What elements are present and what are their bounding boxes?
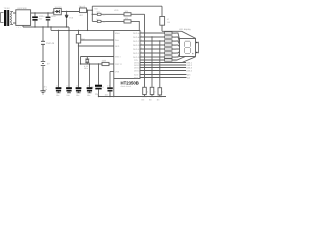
svg-text:VSS: VSS — [115, 70, 120, 73]
bridge rectifier BR1 — [16, 10, 31, 26]
svg-text:SEG.E: SEG.E — [133, 48, 140, 51]
capacitor C2 — [46, 12, 51, 27]
svg-text:+5V: +5V — [94, 8, 98, 11]
svg-text:SEG.A: SEG.A — [133, 32, 140, 35]
svg-text:OSC O: OSC O — [115, 63, 122, 66]
wire R3 to digit line — [131, 13, 145, 15]
wire riser to C3 x58.5 — [58, 30, 59, 31]
switch row A wire y14.3 — [92, 13, 124, 15]
svg-text:10M: 10M — [102, 59, 107, 62]
capacitor C1 — [32, 12, 38, 27]
anode arrow bottom — [197, 52, 199, 54]
svg-text:ALM: ALM — [134, 73, 139, 76]
svg-text:+5V: +5V — [79, 14, 84, 17]
osc loop left vertical — [80, 57, 82, 65]
node osc left — [80, 63, 81, 64]
switch S2 — [97, 20, 101, 22]
top rail +V y13 — [31, 12, 53, 14]
svg-text:10n: 10n — [76, 94, 79, 97]
diode D1 box — [53, 9, 80, 15]
svg-text:alm: alm — [187, 73, 191, 76]
svg-text:10n: 10n — [66, 94, 69, 97]
capacitor C4 x69 — [66, 84, 72, 96]
wire R4 to IC top — [131, 21, 139, 30]
node row A junction — [92, 14, 93, 15]
svg-text:SEG.G: SEG.G — [133, 56, 140, 59]
segment pin numbers — [141, 30, 142, 57]
svg-text:DIG.4: DIG.4 — [187, 69, 193, 72]
capacitor C6 x89.5 — [87, 84, 93, 96]
resistor R4 (row B) — [124, 20, 131, 23]
wire VDD y30.4 left section — [51, 27, 114, 30]
display DS1 — [180, 39, 196, 57]
svg-text:clock circuit: clock circuit — [121, 85, 132, 88]
alarm rows — [140, 74, 187, 76]
svg-text:DIG.3: DIG.3 — [134, 66, 140, 69]
svg-text:RES: RES — [115, 45, 120, 48]
svg-text:VDD: VDD — [114, 9, 119, 12]
crystal X1 — [85, 57, 89, 65]
VDD drop from regulator — [87, 10, 89, 30]
svg-text:c: c — [162, 91, 163, 94]
switch S1 — [97, 13, 101, 15]
driver transistor Q3 — [157, 88, 163, 102]
IC ground vertical — [113, 79, 115, 97]
svg-text:10n: 10n — [105, 93, 108, 96]
value text block left of caps — [43, 86, 48, 94]
svg-text:SEG.B: SEG.B — [133, 36, 140, 39]
digit driver vertical x152 — [151, 36, 152, 37]
svg-text:SNZ: SNZ — [134, 76, 139, 79]
wire box to +V node — [87, 9, 93, 11]
resistor R6 vertical — [78, 30, 79, 31]
anode arrow top — [197, 42, 199, 44]
diode D3 on battery branch — [41, 41, 45, 44]
wire riser to C6 from osc wire — [89, 64, 91, 87]
regulator U2 small box — [80, 8, 87, 13]
svg-text:10n: 10n — [56, 94, 59, 97]
svg-text:LED display: LED display — [179, 28, 192, 31]
driver transistor Q2 — [149, 87, 156, 101]
svg-text:3V: 3V — [47, 63, 50, 66]
AC plug input stubs — [1, 13, 4, 23]
segment wires + resistors R10-R16 — [140, 33, 180, 57]
svg-text:78L05: 78L05 — [79, 6, 86, 9]
node battery branch — [42, 26, 43, 27]
svg-text:SEG.C: SEG.C — [133, 40, 140, 43]
top rail wire y3.8 — [92, 5, 162, 7]
svg-text:hrs: hrs — [97, 18, 100, 21]
wire riser continues down to C5 — [78, 46, 80, 87]
digit driver vertical x144.5 — [144, 32, 145, 33]
digit driver vertical x159.8 — [159, 40, 160, 41]
zener D2 — [65, 11, 68, 27]
node osc mid — [89, 63, 90, 64]
trimmer capacitor C9 (dark) — [95, 85, 102, 97]
DIG rows — [140, 57, 196, 63]
IC right pin labels — [133, 32, 140, 79]
svg-text:DIG.4: DIG.4 — [134, 69, 140, 72]
svg-text:B40C800: B40C800 — [18, 7, 28, 10]
ground battery — [40, 91, 45, 94]
svg-text:1000u: 1000u — [39, 15, 46, 18]
svg-text:~ + ~ -: ~ + ~ - — [16, 26, 23, 29]
svg-text:SEG.F: SEG.F — [133, 52, 140, 55]
svg-text:TR 9V: TR 9V — [4, 7, 11, 10]
resistor R3 (row A) — [124, 13, 131, 16]
svg-text:BC: BC — [157, 99, 160, 102]
svg-text:10K: 10K — [125, 17, 129, 20]
svg-text:24H: 24H — [115, 39, 119, 42]
svg-text:tr: tr — [103, 86, 105, 89]
driver transistor Q1 — [142, 87, 149, 101]
battery BT1 3V — [41, 62, 45, 66]
svg-text:50Hz: 50Hz — [115, 32, 120, 35]
display dp — [192, 53, 193, 54]
capacitor C5 x78.5 — [76, 84, 82, 96]
svg-text:1N4148: 1N4148 — [46, 42, 55, 45]
wire R5 down and right to display — [162, 25, 196, 38]
capacitor C3 x58.5 — [56, 84, 62, 96]
wire transformer to bridge — [13, 13, 16, 23]
anode stub vertical — [197, 42, 199, 53]
node +V x92.3 — [92, 10, 93, 11]
node osc cap — [98, 63, 99, 64]
IC U1 HT2350B — [114, 31, 140, 79]
svg-text:1W: 1W — [167, 21, 170, 24]
junction dots DIG rows — [144, 62, 145, 63]
svg-text:1M: 1M — [81, 38, 84, 41]
ground rail y27 — [23, 25, 69, 27]
svg-text:BC: BC — [142, 99, 145, 102]
wire vertical x92.3 — [91, 6, 93, 21]
svg-text:10n: 10n — [87, 94, 90, 97]
resistor R5 vertical from +V rail — [161, 6, 163, 16]
transformer T1 — [4, 10, 13, 26]
node D2 ground junction — [66, 26, 67, 27]
svg-text:DIG.3: DIG.3 — [187, 66, 193, 69]
display digit 8 — [185, 41, 191, 53]
osc loop bottom wire y64 — [81, 63, 103, 65]
svg-text:25V: 25V — [39, 17, 43, 20]
svg-text:MHz: MHz — [84, 67, 88, 70]
svg-text:HT2350B: HT2350B — [121, 80, 139, 85]
bottom ground rail — [99, 96, 167, 98]
colon row y60 with resistor + diagonal — [140, 59, 165, 61]
wire y40 from R6 to IC — [81, 39, 114, 41]
svg-text:out: out — [187, 76, 190, 79]
svg-text:SEG.D: SEG.D — [133, 44, 140, 47]
node riser C4 / VDD wire junction — [68, 30, 69, 31]
svg-text:OSC I: OSC I — [115, 55, 121, 58]
switch row B wire y21.4 — [92, 20, 124, 22]
wire y71.5 to IC — [110, 71, 114, 73]
IC left pin labels — [115, 32, 122, 73]
svg-text:10K: 10K — [125, 10, 129, 13]
wire riser to C4 x69 — [68, 27, 70, 87]
wire y46 to IC — [79, 45, 114, 47]
svg-text:cer: cer — [43, 91, 46, 94]
capacitor C7 x110 — [105, 84, 113, 96]
svg-text:BC: BC — [149, 99, 152, 102]
resistor R7 osc series — [102, 62, 109, 65]
oscillator loop top wire y56.5 — [81, 56, 114, 58]
battery branch vertical — [42, 27, 44, 91]
